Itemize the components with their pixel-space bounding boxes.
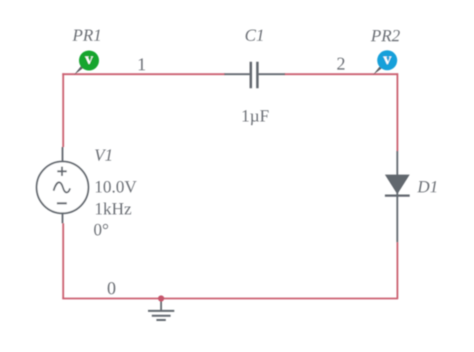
label C1 [246, 30, 257, 41]
label D1 [417, 181, 429, 192]
label PR2 [371, 30, 381, 41]
capacitor C1 leads [224, 73, 285, 75]
probe PR2 v glyph [383, 57, 391, 65]
ground bars [148, 311, 174, 320]
wire left vertical upper [62, 73, 64, 147]
wire net 1 top-left segment [62, 73, 225, 75]
probe PR2 head [377, 50, 397, 70]
minus sign [57, 202, 67, 204]
junction dot node 0 [158, 295, 164, 301]
AC source V1 leads [62, 147, 64, 223]
diode D1 cathode bar [385, 194, 410, 196]
diode D1 anode triangle [385, 175, 410, 195]
sine symbol [54, 182, 70, 192]
node 2 label [337, 58, 344, 70]
probe PR1 v glyph [85, 56, 93, 64]
diode D1 lead [396, 151, 398, 242]
plus sign [57, 167, 66, 176]
value 1uF [243, 110, 249, 121]
wire right vertical lower [396, 242, 398, 299]
node 0 label [108, 282, 116, 294]
value 1kHz [96, 203, 102, 214]
ground stem [160, 300, 162, 311]
value 0 degrees [94, 224, 101, 236]
wire left vertical lower [62, 223, 64, 299]
AC source V1 body [37, 162, 89, 214]
capacitor C1 plates [251, 62, 258, 88]
probe PR1 tail [74, 66, 84, 76]
probe PR2 tail [373, 66, 383, 76]
node 1 label [139, 58, 145, 70]
label PR1 [72, 30, 82, 41]
wire right vertical upper [396, 73, 398, 151]
wire net 0 bottom segment [62, 298, 398, 300]
label V1 [95, 149, 106, 160]
value 10.0V [96, 181, 102, 192]
wire net 2 top-right segment [285, 73, 399, 75]
probe PR1 head [79, 51, 99, 71]
